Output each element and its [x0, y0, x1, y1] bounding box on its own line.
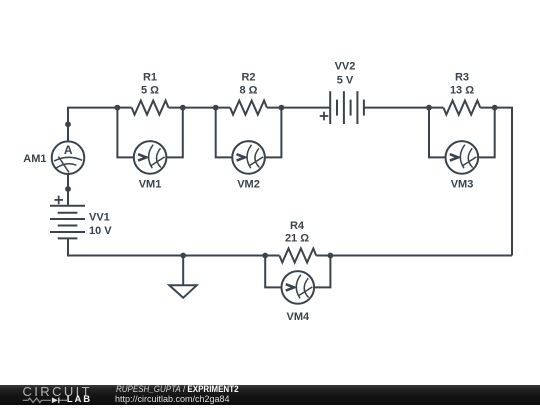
svg-text:8 Ω: 8 Ω [240, 84, 258, 96]
svg-text:VM4: VM4 [286, 311, 310, 323]
svg-text:VM3: VM3 [451, 179, 474, 191]
svg-text:VM1: VM1 [139, 179, 162, 191]
svg-text:VV2: VV2 [335, 60, 356, 72]
svg-text:AM1: AM1 [23, 153, 46, 165]
svg-text:10 V: 10 V [89, 225, 112, 237]
svg-text:VM2: VM2 [237, 179, 260, 191]
svg-text:13 Ω: 13 Ω [450, 84, 474, 96]
svg-text:R4: R4 [290, 220, 305, 232]
svg-text:R2: R2 [241, 71, 255, 83]
svg-text:R1: R1 [143, 71, 157, 83]
svg-text:5 Ω: 5 Ω [141, 84, 159, 96]
svg-text:21 Ω: 21 Ω [285, 232, 309, 244]
svg-text:5 V: 5 V [337, 74, 354, 86]
svg-text:R3: R3 [455, 71, 469, 83]
svg-text:A: A [64, 143, 73, 157]
svg-text:VV1: VV1 [89, 212, 110, 224]
